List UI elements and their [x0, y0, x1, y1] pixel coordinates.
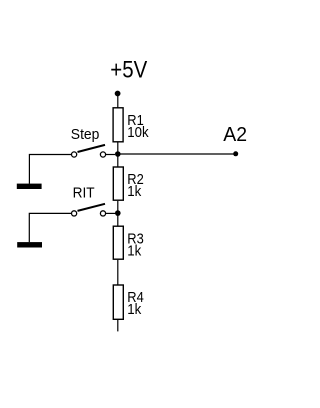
wire Step to ground	[29, 155, 71, 184]
ground (Step)	[17, 184, 42, 189]
svg-text:1k: 1k	[127, 301, 141, 318]
svg-text:A2: A2	[223, 124, 247, 146]
switch Step	[72, 145, 106, 157]
terminal +5V	[115, 91, 121, 97]
switch RIT	[72, 204, 106, 216]
wire node A to terminal A2	[118, 153, 236, 155]
svg-text:+5V: +5V	[110, 57, 147, 84]
wire R2 to node B	[117, 201, 119, 213]
svg-text:1k: 1k	[127, 183, 141, 200]
wire RIT to ground	[29, 213, 71, 242]
resistor R3	[113, 226, 123, 259]
wire node B to R3	[117, 213, 119, 225]
svg-text:RIT: RIT	[73, 184, 95, 201]
wire right contact Step to node A	[106, 154, 115, 156]
svg-text:10k: 10k	[127, 124, 149, 141]
wire R4 output stub	[117, 320, 119, 331]
svg-text:Step: Step	[71, 126, 100, 143]
ground (RIT)	[17, 242, 42, 247]
svg-text:1k: 1k	[127, 242, 141, 259]
node B junction	[115, 210, 121, 216]
wire R3 to R4	[117, 260, 119, 285]
wire +5V terminal to R1	[117, 94, 119, 108]
node A junction	[115, 151, 121, 157]
wire node B to RIT right contact	[106, 212, 118, 214]
wire R1 to node A	[117, 143, 119, 155]
resistor R1	[113, 108, 123, 142]
resistor R2	[113, 167, 123, 200]
terminal A2	[233, 151, 238, 156]
wire node A to R2	[117, 154, 119, 167]
resistor R4	[113, 285, 123, 319]
